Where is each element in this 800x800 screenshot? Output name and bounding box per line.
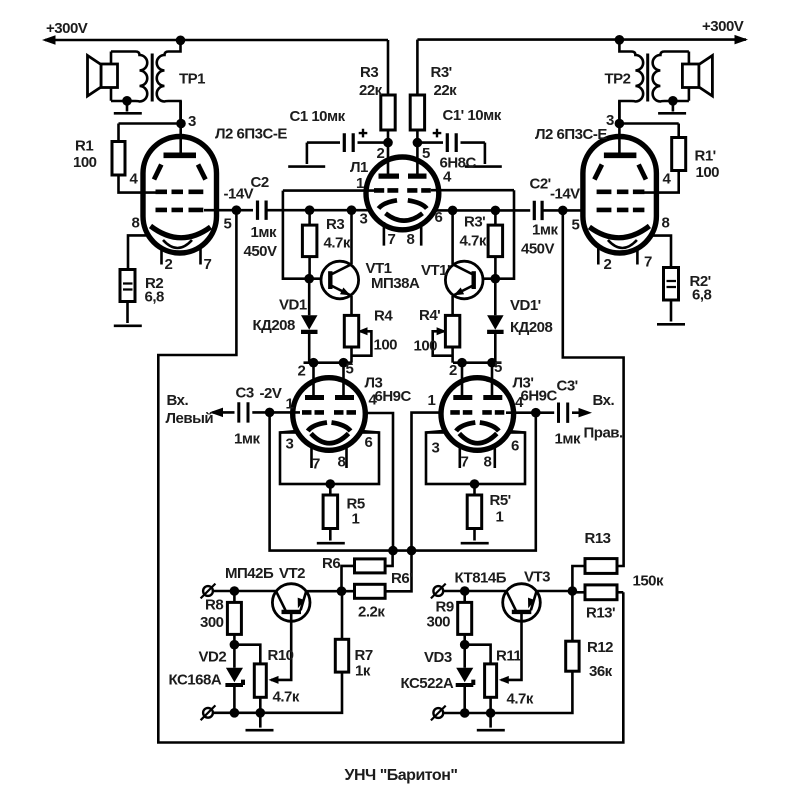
node C3 junction — [265, 408, 275, 418]
svg-text:3: 3 — [606, 112, 614, 129]
node pin3 L2 left — [176, 119, 186, 129]
wire pin5 L2 to C2 — [204, 209, 253, 212]
resistor R3 22k — [381, 95, 395, 130]
svg-text:R10: R10 — [268, 647, 294, 664]
tube L1 cathode arcs — [379, 200, 427, 208]
arrow R11 wiper — [499, 676, 509, 684]
tube L3' cathode arcs — [456, 423, 499, 432]
wire R9 bottom lead — [463, 634, 466, 644]
wire C2 to L1 pin3 — [266, 209, 370, 212]
node R3 4.7k top — [305, 205, 315, 215]
resistor R5' 1 — [467, 495, 482, 529]
wire L1 grid down to VT1' base — [474, 190, 515, 279]
svg-text:R7: R7 — [355, 647, 373, 664]
resistor R12 36k — [566, 641, 579, 671]
tube L3 anode plates — [305, 395, 354, 400]
svg-text:МП38А: МП38А — [371, 275, 420, 292]
arrow VT2 emitter — [298, 598, 305, 609]
diode VD1 KD208 — [301, 279, 318, 363]
svg-text:6,8: 6,8 — [145, 289, 165, 306]
svg-text:-14V: -14V — [550, 186, 580, 203]
tube L3' heater stubs pins 7,8 — [460, 446, 495, 468]
wire pin3 to R1' — [619, 122, 678, 125]
tube L2 anode plate — [164, 153, 197, 159]
svg-text:Л2 6П3С-Е: Л2 6П3С-Е — [535, 126, 607, 143]
tube L3' filament arc — [459, 434, 497, 444]
svg-text:1мк: 1мк — [251, 224, 277, 241]
tube L2' anode plate — [604, 153, 637, 159]
ground C1 — [306, 143, 309, 164]
tube V2 L2 6P3S-E envelope right — [583, 137, 657, 254]
node VT1' collector top — [448, 206, 458, 216]
ground TP1 secondary — [126, 101, 129, 112]
capacitor C1' 10mk — [417, 129, 485, 152]
diode VD1' KD208 — [487, 279, 504, 363]
svg-text:УНЧ "Баритон": УНЧ "Баритон" — [345, 767, 458, 784]
svg-text:VD3: VD3 — [424, 649, 452, 666]
node C3' junction — [531, 408, 541, 418]
svg-text:С3: С3 — [236, 385, 254, 402]
svg-text:3: 3 — [188, 113, 196, 130]
tube L2' anode lead pin 3 — [618, 101, 621, 155]
ground bottom right — [489, 713, 492, 728]
tube L3 grid dashes — [302, 410, 356, 415]
wire L3 pin4 to net — [358, 413, 394, 551]
svg-text:7: 7 — [644, 254, 652, 271]
terminal bias left top — [201, 584, 216, 599]
wire +300V left rail — [45, 39, 388, 42]
node R12/R13 junction — [568, 586, 578, 596]
svg-text:1мк: 1мк — [555, 431, 581, 448]
wire R3' bottom lead — [416, 130, 419, 143]
tube L3' anode leads — [462, 380, 492, 398]
svg-text:КД208: КД208 — [510, 319, 553, 336]
transformer TP1 core — [151, 54, 154, 102]
svg-text:4: 4 — [130, 171, 139, 188]
wire R9 top lead — [463, 591, 466, 602]
svg-text:1: 1 — [428, 392, 436, 409]
svg-text:3: 3 — [360, 211, 368, 228]
node VT1 collector top — [347, 205, 357, 215]
svg-text:8: 8 — [132, 215, 140, 232]
node TP1 primary top junction — [176, 36, 186, 46]
svg-text:VD1: VD1 — [279, 297, 307, 314]
wire L3' pin2 lead — [461, 363, 464, 398]
node VT1 base / R3 4.7k / VD1 — [304, 274, 314, 284]
tube V1 L2 6P3S-E envelope left — [143, 137, 217, 254]
node VD2 bottom — [230, 708, 240, 718]
terminal bias right bottom — [431, 706, 446, 721]
node R11 bottom / ground — [486, 708, 496, 718]
resistor R6' 2.2k — [355, 584, 386, 598]
wire VT1 collector — [350, 210, 353, 264]
ground bar bottom left — [246, 729, 274, 732]
svg-text:7: 7 — [312, 456, 320, 473]
resistor R3' 4.7k — [488, 225, 503, 257]
svg-text:22к: 22к — [434, 82, 458, 99]
wire R8 bottom lead — [233, 634, 236, 644]
wire R4' wiper — [433, 331, 453, 355]
node C1'/R3'/anode junction — [413, 138, 423, 148]
svg-text:Левый: Левый — [166, 410, 214, 427]
svg-text:2: 2 — [298, 363, 306, 380]
arrow VT3 emitter — [528, 598, 535, 609]
wire R4 wiper — [352, 331, 372, 355]
wire L3' pin3 to box — [426, 431, 525, 433]
svg-text:Л2 6П3С-Е: Л2 6П3С-Е — [215, 126, 287, 143]
svg-text:4: 4 — [663, 171, 672, 188]
terminal bias left bottom — [201, 705, 216, 720]
svg-text:6Н9С: 6Н9С — [375, 388, 412, 405]
svg-text:КС168А: КС168А — [169, 672, 222, 689]
wire R13 left lead — [572, 566, 585, 591]
wire L1 pin1 grid to corner — [283, 189, 374, 192]
ground bar bottom right — [477, 729, 505, 732]
svg-text:8: 8 — [484, 454, 492, 471]
node VD3 bottom — [460, 708, 470, 718]
wire R4' bottom lead — [451, 347, 454, 363]
svg-text:4.7к: 4.7к — [507, 691, 534, 708]
svg-text:2: 2 — [449, 362, 457, 379]
tube L2 heater stubs pins 2,7 — [162, 246, 201, 265]
tube L3' grid dashes — [450, 410, 504, 415]
tube L1 heater stubs pins 7,8 — [384, 222, 421, 246]
ground TP2 secondary — [672, 101, 675, 112]
svg-text:R4: R4 — [374, 308, 393, 325]
wire R10 top lead — [234, 645, 260, 664]
tube L3 heater stubs pins 7,8 — [312, 446, 347, 468]
transformer TP2 secondary winding — [653, 52, 689, 102]
svg-text:6: 6 — [365, 434, 373, 451]
svg-text:22к: 22к — [359, 82, 383, 99]
tube L2' grid row 1 — [597, 190, 645, 195]
svg-text:3: 3 — [432, 440, 440, 457]
svg-text:5: 5 — [224, 216, 232, 233]
tube L2' cathode arc — [589, 226, 649, 238]
svg-text:300: 300 — [200, 614, 224, 631]
wire R2' to ground — [670, 300, 673, 322]
svg-text:R4': R4' — [419, 307, 440, 324]
wire terminal to VT3 — [444, 590, 507, 593]
capacitor C3' 1mk — [536, 403, 579, 423]
capacitor C1 10mk — [307, 129, 388, 152]
node R3' 4.7k top — [491, 206, 501, 216]
wire VT3 base to R11 wiper — [501, 620, 521, 680]
svg-text:Л1: Л1 — [350, 159, 368, 176]
svg-text:R1': R1' — [695, 148, 716, 165]
wire pin3 to R1 — [119, 122, 182, 125]
wire R2 to ground — [126, 302, 129, 324]
wire R5 to ground — [329, 529, 332, 541]
svg-text:6,8: 6,8 — [692, 287, 712, 304]
wire R7 top lead — [341, 591, 344, 639]
tube L1 anode leads pins 2,5 — [388, 143, 417, 176]
svg-text:450V: 450V — [521, 241, 555, 258]
svg-text:R12: R12 — [587, 639, 613, 656]
diode VD3 KS522A zener — [456, 645, 474, 713]
ground bottom left — [259, 713, 262, 728]
wire L3' pin5 lead — [491, 363, 494, 398]
resistor R3 4.7k — [302, 225, 317, 257]
svg-text:КД208: КД208 — [253, 317, 296, 334]
resistor R2 wire-wound marks — [123, 284, 133, 290]
svg-text:-2V: -2V — [260, 385, 282, 402]
svg-text:4: 4 — [443, 169, 452, 186]
svg-text:R5': R5' — [490, 492, 511, 509]
resistor R10 4.7k trimmer — [254, 664, 266, 697]
transistor Q3 VT2 MP42B — [272, 584, 310, 622]
svg-text:+300V: +300V — [702, 18, 744, 35]
svg-text:4.7к: 4.7к — [324, 235, 351, 252]
node R6 junction — [388, 546, 398, 556]
svg-text:100: 100 — [696, 164, 720, 181]
speaker right — [682, 52, 712, 101]
cathode box L3' — [426, 433, 525, 485]
node C1/R3/anode junction — [383, 138, 393, 148]
capacitor C2 1mk 450V — [258, 201, 267, 220]
wire R5' top lead — [473, 484, 476, 495]
svg-text:С2: С2 — [251, 174, 269, 191]
node TP1 secondary ground junction — [122, 96, 132, 106]
transformer TP1 secondary winding — [111, 52, 147, 102]
tube L1 anode plates — [379, 174, 427, 179]
svg-text:1: 1 — [496, 509, 504, 526]
capacitor C3 1mk — [213, 402, 270, 422]
svg-text:4.7к: 4.7к — [273, 689, 300, 706]
svg-text:5: 5 — [346, 361, 354, 378]
wire R1' to pin4 L2' — [643, 171, 679, 193]
svg-text:Прав.: Прав. — [584, 425, 624, 442]
arrow R10 wiper — [269, 676, 279, 684]
node R5 top — [326, 479, 336, 489]
speaker left — [88, 52, 118, 101]
svg-text:Вх.: Вх. — [593, 392, 615, 409]
wire pin8 L2' to R2' — [653, 236, 671, 268]
ground C1' — [484, 143, 487, 164]
transistor Q1 VT1 MP38A — [321, 261, 359, 299]
wire terminal to VT2 — [213, 590, 276, 593]
wire R4 bottom lead — [350, 347, 353, 363]
svg-text:2: 2 — [604, 256, 612, 273]
svg-text:R3: R3 — [360, 64, 378, 81]
resistor R6 — [355, 559, 386, 573]
wire VT3 to R12/R13 node — [536, 590, 572, 593]
svg-text:КТ814Б: КТ814Б — [455, 570, 507, 587]
svg-text:3: 3 — [286, 436, 294, 453]
resistor R4 100 trimmer — [344, 315, 358, 347]
svg-text:100: 100 — [414, 338, 438, 355]
ground R5 — [317, 542, 345, 545]
wire L3 pin3 to box — [280, 431, 379, 433]
wire C2' to L2' pin5 — [542, 209, 581, 212]
resistor R11 4.7k trimmer — [485, 664, 497, 697]
wire R1 to pin4 L2 — [119, 175, 157, 193]
ground R2 — [114, 324, 142, 327]
wire R8 top lead — [233, 591, 236, 602]
resistor R2' wire-wound marks — [667, 281, 677, 287]
wire L3 pin2 lead — [312, 363, 315, 398]
svg-text:2: 2 — [165, 256, 173, 273]
terminal bias right top — [431, 584, 446, 599]
arrow VT1 emitter — [340, 288, 351, 296]
wire R11 bottom lead — [489, 697, 492, 713]
svg-text:R11: R11 — [496, 648, 521, 665]
svg-text:4.7к: 4.7к — [460, 233, 487, 250]
resistor R2' 6.8 — [664, 268, 679, 301]
transformer TP1 primary winding — [157, 40, 181, 123]
wire L3' anode net — [453, 361, 502, 364]
svg-text:7: 7 — [461, 454, 469, 471]
resistor R5 1 — [323, 495, 338, 529]
wire L3 pin1 grid — [270, 411, 300, 414]
svg-text:7: 7 — [204, 256, 212, 273]
svg-text:2.2к: 2.2к — [358, 604, 385, 621]
wire L1 pin6 to C2' — [432, 209, 530, 212]
wire R11 top lead — [465, 645, 491, 664]
tube L2' grid row 2 — [597, 208, 645, 213]
svg-text:R6': R6' — [391, 570, 412, 587]
wire R12 bottom to terminal — [444, 671, 573, 713]
wire L3 anode net — [304, 361, 353, 364]
svg-text:1: 1 — [352, 511, 360, 528]
node R7/R6 junction — [337, 586, 347, 596]
svg-text:7: 7 — [388, 231, 396, 248]
tube L1 grid dashes — [374, 188, 431, 193]
wire VT2 base to R10 wiper — [271, 620, 291, 680]
cathode box L3 — [280, 433, 379, 485]
svg-text:С3': С3' — [557, 378, 578, 395]
tube U3 L3' 6N9S envelope — [441, 378, 514, 451]
svg-text:R13: R13 — [585, 530, 611, 547]
resistor R8 300 — [227, 602, 241, 634]
arrow right +300V — [735, 35, 749, 45]
svg-text:R3': R3' — [464, 214, 485, 231]
node feedback tap left — [232, 205, 242, 215]
tube L3 filament arc — [311, 434, 349, 444]
wire R1 top lead — [117, 124, 120, 142]
svg-text:4: 4 — [369, 392, 378, 409]
tube L3' anode plates — [453, 395, 502, 400]
node TP2 secondary ground junction — [668, 96, 678, 106]
resistor R7 1k — [335, 639, 348, 672]
arrow VT1' emitter — [454, 288, 465, 296]
svg-text:С1 10мк: С1 10мк — [290, 108, 346, 125]
wire L3' pin1 to net — [412, 413, 449, 551]
resistor R9 300 — [458, 602, 472, 634]
resistor R2 6.8 — [120, 270, 135, 302]
node R6' junction — [407, 546, 417, 556]
wire R13 right lead feedback to C2' node — [563, 210, 624, 566]
svg-text:VT3: VT3 — [524, 569, 550, 586]
node pin3 L2 right — [615, 119, 625, 129]
tube L2 grid row 2 — [156, 208, 204, 213]
wire R6 leads — [342, 551, 393, 592]
tube L2 grid row 1 — [156, 190, 204, 195]
node VD3/R11 junction — [460, 640, 470, 650]
svg-text:R3': R3' — [431, 64, 452, 81]
svg-text:2: 2 — [377, 145, 385, 162]
svg-text:R1: R1 — [75, 138, 93, 155]
wire VT1' collector — [451, 210, 454, 264]
svg-text:300: 300 — [427, 614, 451, 631]
tube L2 filament arc — [163, 240, 192, 248]
wire R3' 22k top lead from rail — [416, 40, 419, 95]
arrow R4' wiper — [437, 327, 447, 335]
tube L2 anode lead pin 3 — [179, 101, 182, 155]
svg-text:1: 1 — [286, 396, 294, 413]
wire L1 pin4 grid to corner — [431, 189, 514, 192]
svg-text:450V: 450V — [244, 243, 278, 260]
wire R3' 4.7k bottom lead — [494, 257, 497, 279]
svg-text:R3: R3 — [326, 216, 344, 233]
wire R13' right lead — [617, 591, 623, 594]
svg-text:100: 100 — [73, 154, 97, 171]
wire R7 bottom to terminal — [213, 672, 342, 713]
tube U1 L1 6N8S envelope — [366, 157, 439, 230]
wire VT1' emitter to R4' — [451, 296, 454, 316]
svg-text:VD1': VD1' — [510, 297, 541, 314]
wire R3 4.7k bottom lead — [308, 257, 311, 279]
transformer TP2 core — [646, 54, 649, 102]
ground R5' — [461, 542, 489, 545]
resistor R13 150k — [585, 559, 617, 574]
wire L1 grid down to VT1 base — [283, 191, 330, 279]
arrow R4 wiper — [358, 327, 368, 335]
tube L2 cathode arc — [151, 226, 211, 238]
svg-text:8: 8 — [662, 215, 670, 232]
transistor Q4 VT3 KT814B — [503, 584, 541, 622]
node R8 top — [230, 586, 240, 596]
svg-text:VT1': VT1' — [421, 262, 450, 279]
svg-text:4: 4 — [515, 394, 524, 411]
wire R6' right lead — [385, 551, 411, 592]
tube L3 cathode arcs — [308, 423, 351, 432]
svg-text:ТР1: ТР1 — [179, 71, 205, 88]
resistor R1' 100 — [672, 138, 686, 171]
wire R3 22k top lead from rail — [387, 40, 390, 95]
svg-text:1к: 1к — [355, 663, 371, 680]
wire R3 4.7k top lead — [308, 210, 311, 225]
capacitor C2' 1mk 450V — [534, 201, 542, 220]
tube L2' filament arc — [608, 240, 637, 248]
svg-text:Вх.: Вх. — [167, 392, 189, 409]
svg-text:R13': R13' — [586, 605, 615, 622]
wire R10 bottom lead — [259, 697, 262, 713]
wire R12 top lead — [571, 591, 574, 641]
svg-text:С2': С2' — [530, 176, 551, 193]
wire L3 pin5 lead — [342, 363, 345, 398]
wire outer feedback frame left — [158, 210, 623, 742]
svg-text:-14V: -14V — [224, 186, 254, 203]
node R10 bottom / ground — [255, 708, 265, 718]
resistor R1 100 — [112, 142, 125, 176]
svg-text:1мк: 1мк — [532, 222, 558, 239]
diode VD2 KS168A zener — [225, 645, 243, 713]
svg-text:МП42Б: МП42Б — [225, 565, 274, 582]
tube L2' beam plates — [594, 165, 646, 180]
node R9 top — [460, 586, 470, 596]
wire L3' pin4 grid to C3' — [506, 411, 536, 414]
tube L3 anode leads — [314, 380, 344, 398]
svg-text:КС522А: КС522А — [401, 675, 454, 692]
transformer TP2 primary winding — [619, 40, 643, 124]
svg-text:100: 100 — [374, 337, 398, 354]
resistor R13' 150k — [585, 585, 617, 600]
wire R1' top lead — [677, 124, 680, 138]
svg-text:VT2: VT2 — [279, 565, 305, 582]
svg-text:R8: R8 — [205, 597, 223, 614]
svg-text:5: 5 — [422, 145, 430, 162]
